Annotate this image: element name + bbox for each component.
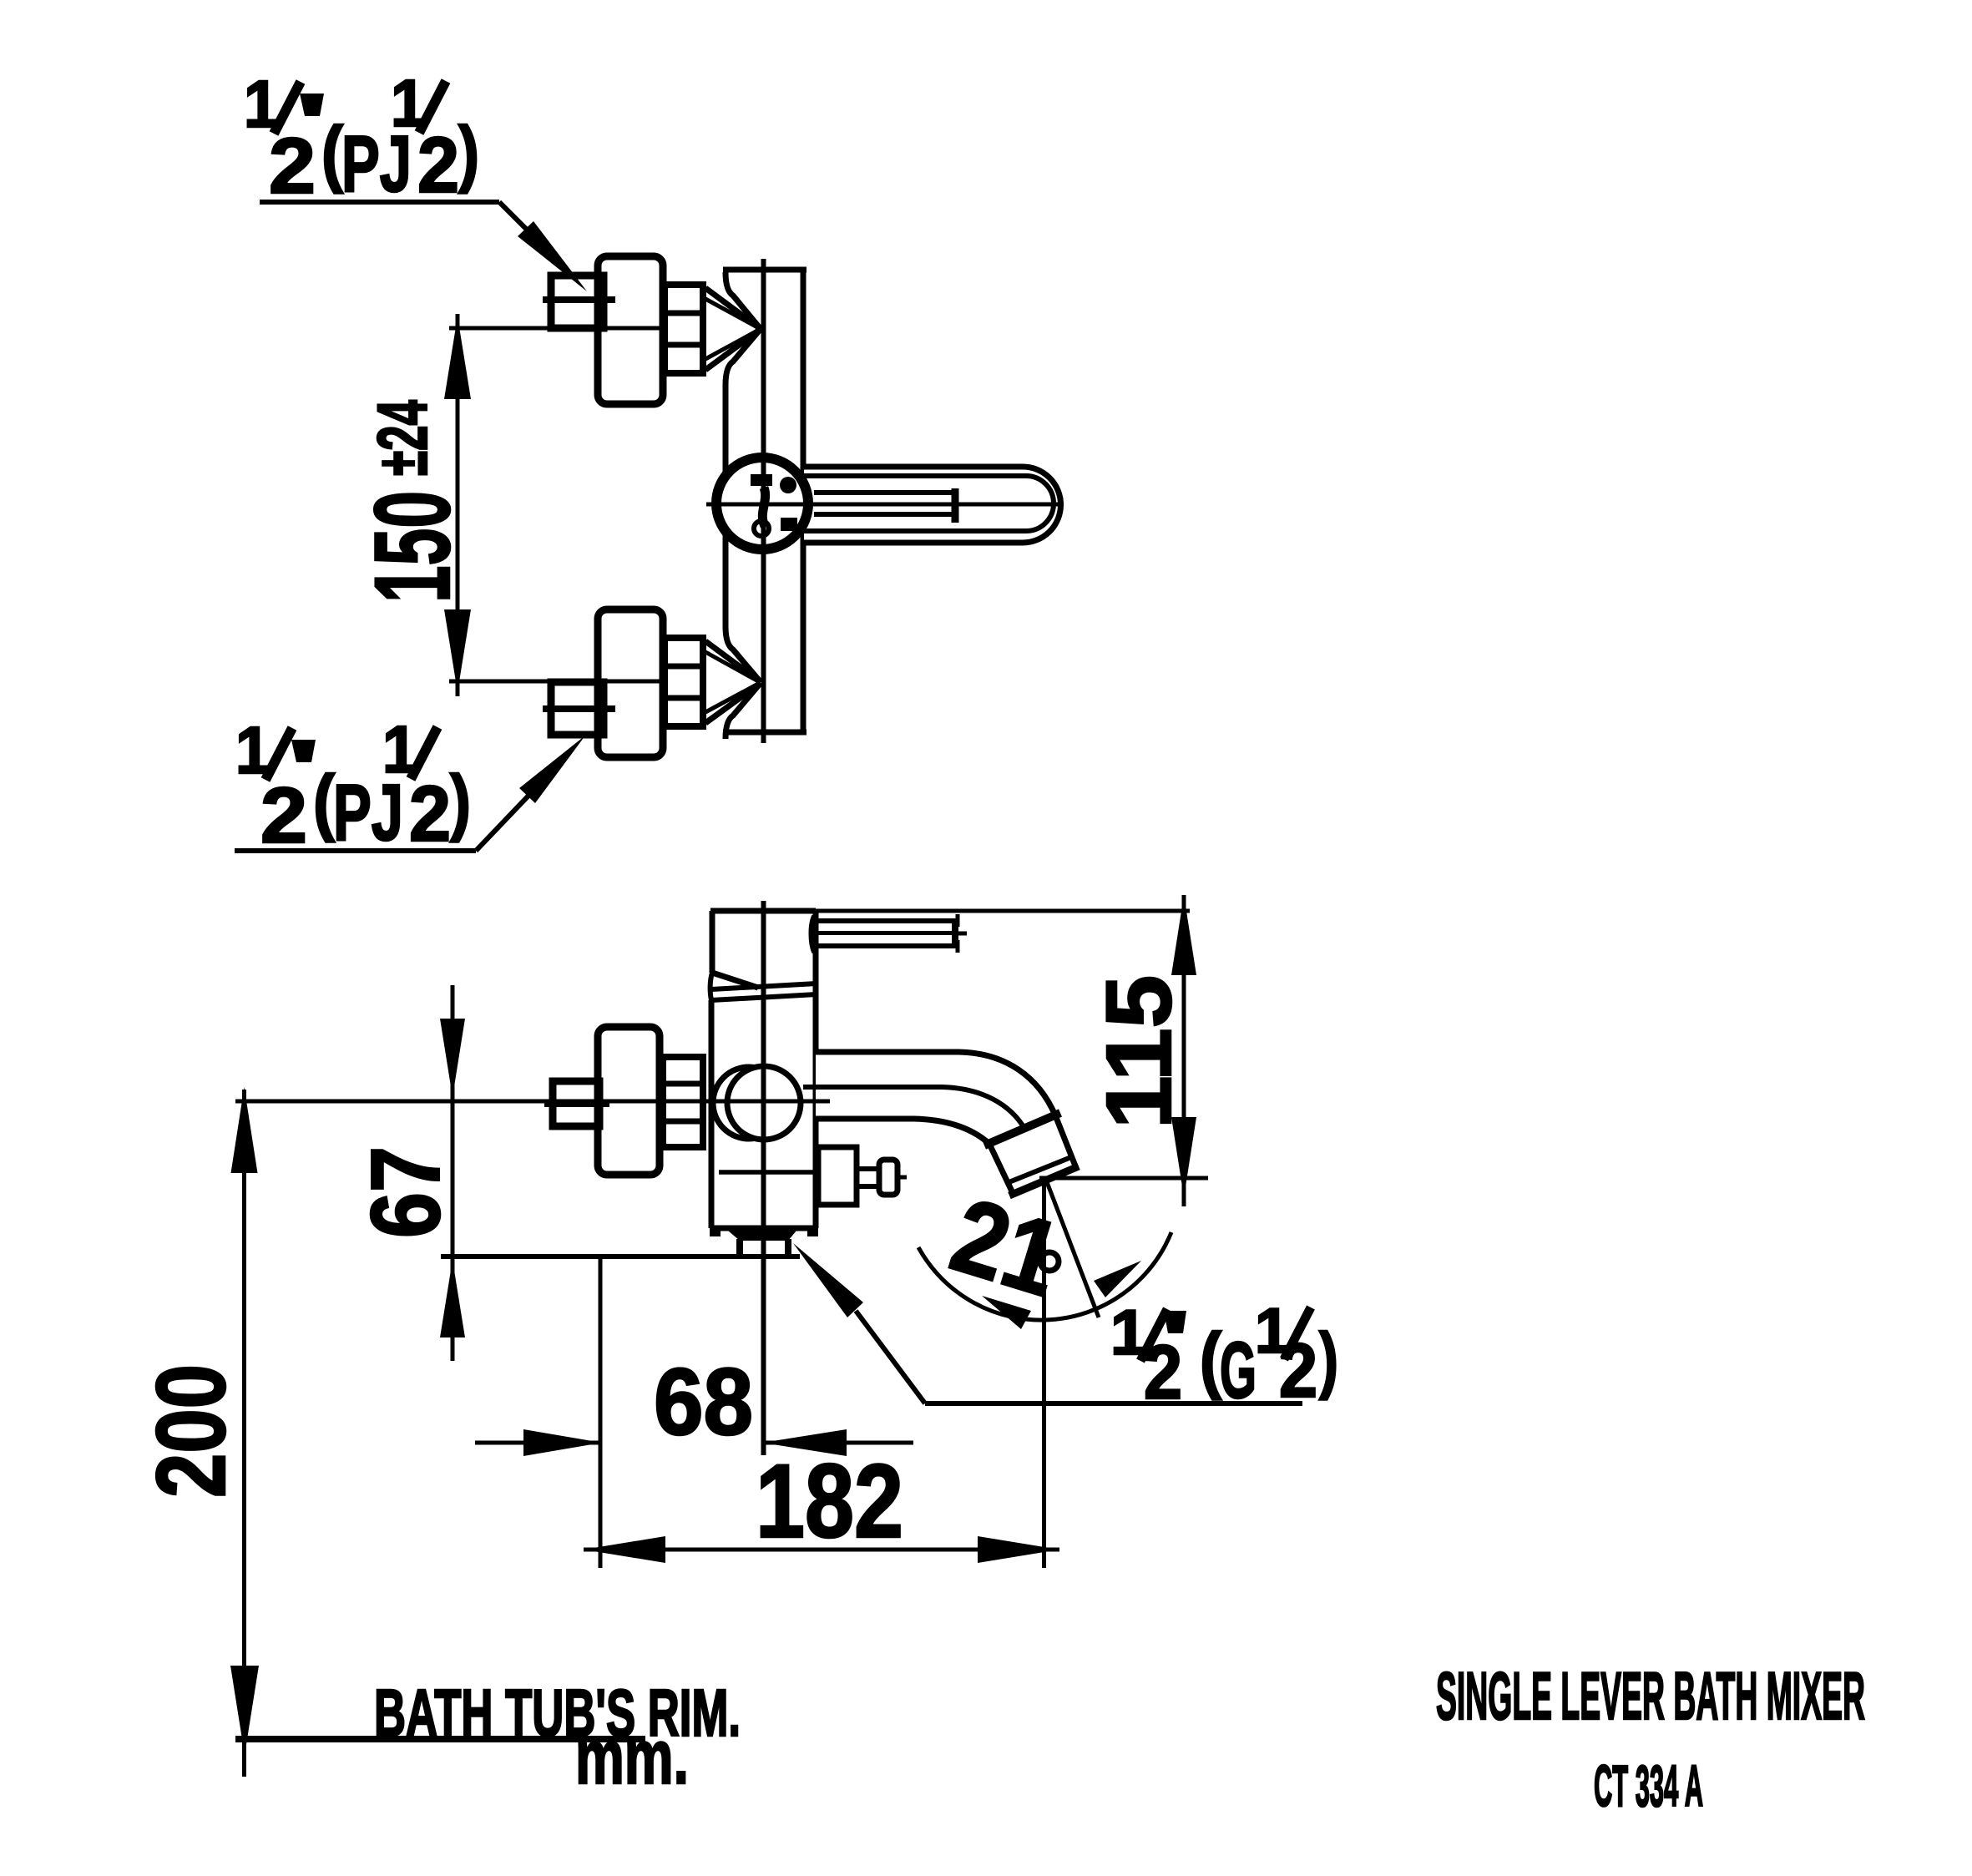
wall union bottom: flare upper [726, 626, 761, 682]
dimension 150±24 extension line bottom [449, 680, 664, 684]
svg-text:): ) [458, 111, 479, 194]
cap top edge thick [710, 908, 816, 914]
dimension 182 arrow left [584, 1536, 665, 1563]
wall union top: flare upper [726, 272, 761, 329]
side union: nut [663, 1057, 703, 1147]
lever bar bottom edge [814, 943, 958, 948]
svg-text:(: ( [1200, 1317, 1222, 1400]
body bottom edge [710, 1226, 818, 1231]
angle 21 arrow right [1094, 1261, 1141, 1297]
dimension 68 left extension [599, 1257, 603, 1568]
outlet nipple bottom / extension line [441, 1254, 800, 1259]
nozzle joint line [984, 1113, 1060, 1145]
label G: underline [925, 1401, 1302, 1406]
label top leader diagonal [499, 202, 529, 232]
svg-text:67: 67 [351, 1146, 460, 1238]
dimension text 200 [136, 1364, 245, 1498]
wall union bottom: pipe square [551, 682, 604, 735]
angle 21 vertical radial / 182 right extension [1042, 1179, 1046, 1568]
svg-text:±24: ±24 [363, 400, 442, 476]
dimension 150±24 arrow down [444, 609, 471, 692]
label top leader arrow [518, 221, 587, 291]
lever bar end tick [957, 932, 967, 936]
wall union bottom: nut line 2 [665, 695, 703, 701]
centerline end tick [1059, 498, 1064, 511]
logo mark: top bar [751, 474, 772, 486]
dimension 67 arrow down [440, 1019, 465, 1097]
wall union top: nut [665, 285, 703, 373]
svg-text:SINGLE LEVER BATH MIXER: SINGLE LEVER BATH MIXER [1436, 1659, 1865, 1734]
side union: escutcheon [598, 1027, 660, 1175]
lever bar end cap [952, 918, 958, 948]
body plate left edge [723, 385, 729, 626]
lever bar left arc [811, 916, 814, 953]
label bottom text [235, 712, 471, 860]
dimension 67 line [451, 985, 455, 1361]
svg-text:200: 200 [136, 1364, 245, 1498]
wall union top: cone outer upper [705, 288, 761, 329]
svg-text:2: 2 [1279, 1328, 1317, 1413]
dimension 150±24 extension line top [449, 326, 664, 331]
extension line top (115) / cap top [710, 909, 1190, 913]
lever neck underside [712, 973, 758, 988]
diverter stem line 1 [857, 1166, 879, 1171]
dimension text 115 [1088, 975, 1191, 1129]
spout middle line [803, 1087, 1025, 1130]
dimension 115 arrow down [1171, 1117, 1196, 1197]
wall union top: flare lower [726, 329, 761, 385]
dimension text 67 [351, 1146, 460, 1238]
wall union top: cone outer lower [705, 329, 761, 370]
lever handle: white fill [804, 467, 1061, 543]
dimension 115 arrow up [1171, 895, 1196, 975]
body plate bottom cap [723, 730, 806, 736]
lever bar corner tick bottom [956, 940, 960, 953]
dimension text ±24 [363, 400, 442, 476]
dimension 67 arrow up [440, 1260, 465, 1337]
nozzle end face [1009, 1166, 1079, 1196]
ball joint main circle [727, 1066, 801, 1140]
dimension 200 line [242, 1090, 246, 1777]
ball joint back circle [713, 1067, 785, 1139]
nozzle right edge [1055, 1115, 1076, 1168]
svg-text:): ) [1319, 1317, 1338, 1400]
nozzle aerator line [1007, 1157, 1071, 1183]
extension line spout outlet [1039, 1176, 1208, 1181]
lever handle: inner stadium [804, 476, 1054, 531]
logo mark: bottom square [781, 518, 797, 531]
spout: white fill [816, 1052, 1055, 1144]
angle 21 arc [918, 1232, 1171, 1320]
label G: leader diagonal [856, 1311, 925, 1403]
wall union top: cone inner lower [705, 330, 760, 360]
cartridge circle [716, 458, 808, 549]
wall union bottom: cone outer lower [705, 683, 761, 723]
wall union top: nut line 2 [665, 342, 703, 348]
lever bar inner line [818, 931, 953, 935]
lever bar corner tick top [956, 914, 960, 927]
outlet shoulder fill [728, 1231, 796, 1241]
internal joint line [719, 1170, 817, 1175]
svg-text:2: 2 [1144, 1330, 1182, 1415]
outlet nipple left [736, 1239, 743, 1257]
logo mark: squiggle [762, 488, 765, 526]
nozzle left edge [989, 1144, 1013, 1193]
wall union top: pipe square [551, 276, 604, 328]
body left edge (side) [709, 1000, 715, 1228]
svg-text:68: 68 [654, 1349, 753, 1454]
wall union top: nut line 1 [665, 311, 703, 316]
spout bottom edge [816, 1119, 989, 1144]
side union: nut line 1 [663, 1081, 703, 1087]
diverter knob tick [898, 1176, 907, 1180]
svg-text:182: 182 [756, 1444, 903, 1560]
svg-text:2: 2 [417, 121, 459, 210]
angle 21 slanted radial [1047, 1182, 1099, 1317]
dimension 68 arrow right-pointing [523, 1429, 602, 1456]
svg-text:mm.: mm. [575, 1715, 689, 1800]
dimension 115 line [1182, 895, 1186, 1206]
lever handle: slot top [814, 490, 953, 495]
svg-text:2: 2 [409, 770, 451, 858]
wall union bottom: flare lower [726, 683, 761, 739]
wall union bottom: square tick [543, 705, 615, 712]
dimension 68 line left tail [475, 1441, 602, 1445]
logo mark: small ring [754, 521, 769, 536]
wall union top: cone inner upper [705, 299, 760, 329]
side horizontal axis [235, 1100, 830, 1104]
lever handle: outer stadium [804, 467, 1061, 543]
lever handle: slot end bar [952, 488, 959, 523]
outlet nipple right [785, 1239, 791, 1257]
side union: square tick [544, 1100, 609, 1107]
dimension text 150 [353, 491, 473, 603]
outlet corner tab right [807, 1228, 818, 1236]
body right edge (side) [813, 911, 819, 1228]
dimension 68 line right tail [762, 1441, 913, 1445]
logo mark: dot [780, 477, 796, 493]
wall union bottom: nut line 1 [665, 664, 703, 670]
angle degree ring [1040, 1252, 1059, 1271]
lever handle: slot bottom [814, 512, 953, 517]
dimension 182 arrow right [978, 1536, 1059, 1563]
svg-text:115: 115 [1088, 975, 1191, 1129]
cap collar line 1 [711, 984, 817, 989]
body plate right edge [801, 270, 806, 732]
label 1/2"(G1/2): leader arrow [793, 1243, 863, 1317]
dimension 150±24 arrow up [444, 316, 471, 399]
label 1/2"(PJ1/2) bottom : leader underline [235, 848, 476, 853]
spout top edge [816, 1052, 1055, 1115]
label bottom leader arrow [519, 736, 585, 803]
angle text 21 [939, 1176, 1074, 1318]
label bottom leader diagonal [476, 796, 528, 851]
lever bar top edge [816, 918, 958, 923]
side union: nut line 2 [663, 1119, 703, 1125]
cap collar line 2 [711, 994, 817, 1000]
cap left edge [710, 911, 715, 973]
horizontal centerline through circle and lever [706, 503, 1064, 507]
svg-text:2: 2 [269, 122, 316, 210]
diverter knob [879, 1160, 898, 1195]
nozzle white fill [989, 1115, 1076, 1193]
bath tub rim line [235, 1736, 645, 1742]
svg-text:150: 150 [353, 491, 473, 603]
outlet corner tab left [710, 1228, 721, 1236]
wall union bottom: escutcheon [598, 609, 663, 757]
svg-text:(: ( [313, 760, 336, 842]
wall union bottom: cone inner lower [705, 683, 760, 712]
label top text [244, 66, 479, 210]
dimension 182 line [584, 1548, 1059, 1552]
wall union bottom: cone outer upper [705, 641, 761, 682]
wall union bottom: cone inner upper [705, 652, 760, 682]
dimension 150±24 line [456, 314, 460, 696]
diverter stem line 2 [857, 1184, 879, 1189]
label 1/2"(PJ1/2) top : leader underline [260, 200, 499, 205]
svg-text:): ) [450, 760, 471, 842]
vertical centerline [761, 259, 766, 743]
svg-text:2: 2 [260, 771, 307, 860]
cap left bulge [710, 973, 712, 1000]
svg-text:G: G [1220, 1326, 1257, 1415]
dimension 200 arrow down [230, 1666, 259, 1755]
dimension 68 arrow left-pointing [762, 1429, 847, 1456]
svg-text:CT 334 A: CT 334 A [1594, 1753, 1703, 1818]
side vertical centerline [761, 901, 766, 1455]
diverter port box [818, 1147, 857, 1205]
wall union bottom: nut [665, 638, 703, 726]
angle 21 arrow left [982, 1296, 1031, 1329]
body plate top cap [723, 267, 806, 273]
wall union top: escutcheon [598, 256, 663, 404]
svg-text:(: ( [321, 111, 344, 194]
dimension 200 arrow up [231, 1087, 258, 1173]
side union: pipe square [553, 1081, 599, 1126]
wall union top: square tick [543, 296, 615, 303]
label G text [1110, 1296, 1338, 1415]
